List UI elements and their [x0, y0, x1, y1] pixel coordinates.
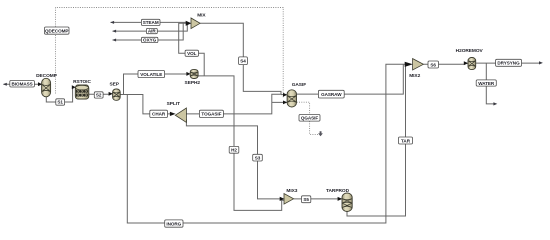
label box VOL	[185, 50, 198, 56]
arrow into SEPH2	[186, 72, 190, 76]
svg-text:MIX2: MIX2	[409, 73, 420, 79]
svg-text:QGASIF: QGASIF	[301, 116, 319, 121]
svg-text:TAR: TAR	[401, 138, 411, 143]
wire WATER branch product	[486, 63, 494, 104]
wire GASIF outlet GASRAW to MIX2	[297, 64, 404, 94]
arrow AIR feed tip	[112, 30, 116, 33]
wire OXYG feed	[113, 23, 184, 40]
label box QGASIF	[299, 115, 320, 122]
arrow into MIX2	[405, 62, 413, 67]
reactor RSTOIC icon	[75, 85, 89, 99]
reactor GASIF icon	[287, 90, 296, 107]
wire DECOMP to S1 to RSTOIC	[46, 87, 73, 102]
wire SEP to CHAR to SPLIT	[120, 95, 171, 114]
label box BIOMASS	[10, 81, 35, 88]
wire SEPH2 up VOL branch	[179, 23, 205, 76]
svg-text:INORG: INORG	[166, 221, 181, 226]
heat stream QGASIF wire	[297, 102, 319, 134]
arrow BIOMASS feed tip	[3, 83, 7, 86]
label box WATER	[476, 80, 496, 86]
arrow WATER product tip	[493, 102, 497, 105]
wire SPLIT to TOGASIF to GASIF lower inlet	[186, 94, 283, 114]
arrow into MIX3	[280, 197, 285, 201]
svg-text:H2: H2	[231, 148, 237, 153]
arrow into SEP	[109, 92, 113, 96]
svg-text:DRYSYNG: DRYSYNG	[497, 61, 520, 66]
wire MIX2 outlet S6 to H2OREMOV	[423, 63, 464, 65]
wire AIR feed	[113, 24, 188, 32]
svg-text:S2: S2	[96, 93, 102, 98]
arrow into SPLIT	[170, 112, 176, 116]
label box S4	[239, 57, 248, 65]
svg-text:TOGASIF: TOGASIF	[201, 112, 221, 117]
svg-text:SPLIT: SPLIT	[167, 101, 180, 107]
label box TAR	[399, 137, 413, 144]
svg-text:MIX: MIX	[197, 13, 206, 19]
separator SEPH2 icon	[190, 69, 198, 78]
svg-text:GASIF: GASIF	[292, 82, 307, 88]
heat stream QDECOMP wire	[56, 8, 284, 98]
wire MIX outlet to S4 to GASIF upper inlet	[200, 23, 281, 94]
label box STEAM	[141, 19, 160, 25]
svg-text:STEAM: STEAM	[143, 20, 159, 25]
arrow into GASIF lower	[283, 101, 287, 105]
label box S1	[56, 99, 65, 105]
label box S6	[428, 61, 439, 68]
arrow into GASIF upper	[283, 93, 287, 97]
wire TARPROD bottom to TAR up to MIX2	[347, 64, 406, 216]
label box TOGASIF	[199, 110, 223, 117]
svg-text:S1: S1	[57, 100, 63, 105]
label box QDECOMP	[45, 27, 70, 34]
wire BIOMASS feed	[4, 83, 40, 85]
arrow into TARPROD	[338, 197, 343, 201]
svg-text:S3: S3	[255, 155, 261, 160]
label box S2	[94, 92, 103, 98]
separator SEP icon	[113, 89, 121, 100]
arrow into RSTOIC	[72, 85, 76, 89]
svg-text:H2OREMOV: H2OREMOV	[456, 48, 484, 54]
wire SEPH2 to H2 down to MIX3	[198, 76, 284, 211]
arrow into DECOMP	[38, 82, 42, 86]
arrow into MIX	[186, 21, 192, 26]
heat stream QGASIF end arrow	[318, 131, 323, 136]
wire RSTOIC to S2 to SEP	[89, 93, 110, 95]
svg-text:WATER: WATER	[478, 81, 495, 86]
svg-text:RSTOIC: RSTOIC	[73, 79, 91, 85]
svg-text:BIOMASS: BIOMASS	[12, 82, 33, 87]
label box GASRAW	[318, 90, 344, 98]
mixer MIX2 icon	[413, 59, 424, 70]
wire H2OREMOV outlet DRYSYNG product	[476, 62, 540, 64]
label box S5	[302, 196, 311, 203]
svg-text:SEPH2: SEPH2	[185, 80, 201, 86]
wire SEP down INORG to MIX2	[127, 64, 405, 223]
svg-text:AIR: AIR	[148, 29, 156, 34]
label box VOLATILE	[138, 71, 165, 78]
svg-text:TARPROD: TARPROD	[326, 188, 350, 194]
svg-text:QDECOMP: QDECOMP	[45, 28, 68, 33]
wire SPLIT second outlet to S3 to MIX3	[186, 120, 280, 199]
label box INORG	[165, 220, 183, 227]
svg-text:DECOMP: DECOMP	[36, 73, 58, 79]
svg-text:SEP: SEP	[109, 81, 119, 87]
splitter SPLIT icon	[175, 108, 186, 122]
separator H2OREMOV icon	[468, 58, 476, 70]
arrow DRYSYNG product tip	[539, 61, 543, 64]
svg-text:S4: S4	[240, 59, 246, 64]
svg-text:S6: S6	[430, 62, 436, 67]
mixer MIX icon	[191, 18, 200, 29]
svg-text:OXYG: OXYG	[143, 38, 157, 43]
reactor TARPROD icon	[342, 193, 352, 212]
arrow into H2OREMOV	[464, 61, 469, 65]
svg-text:S5: S5	[303, 197, 309, 202]
label box CHAR	[150, 110, 168, 117]
label box AIR	[146, 28, 157, 33]
svg-text:GASRAW: GASRAW	[321, 92, 342, 97]
wire MIX3 outlet S5 to TARPROD	[294, 198, 339, 200]
wire GASIF upper inlet stub	[281, 94, 284, 96]
wire STEAM feed	[111, 21, 187, 23]
svg-text:VOL: VOL	[187, 51, 197, 56]
arrow STEAM feed tip	[110, 21, 114, 24]
label box S3	[253, 154, 263, 161]
reactor DECOMP icon	[42, 78, 51, 97]
label box H2	[229, 146, 239, 153]
mixer MIX3 icon	[284, 194, 294, 205]
svg-text:MIX3: MIX3	[286, 188, 297, 194]
label box DRYSYNG	[496, 59, 522, 66]
label box OXYG	[141, 37, 158, 42]
svg-text:CHAR: CHAR	[152, 112, 166, 117]
wire SEP up to VOLATILE to SEPH2	[124, 74, 188, 95]
arrow OXYG feed tip	[112, 39, 116, 42]
svg-text:VOLATILE: VOLATILE	[140, 72, 162, 77]
